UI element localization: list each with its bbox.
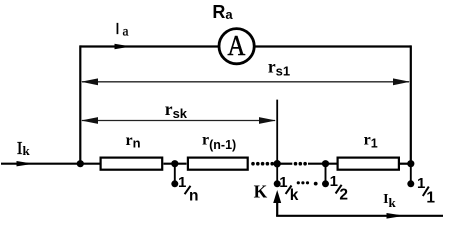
dotted wire segment after Rn-1 <box>251 162 274 166</box>
resistor R1 <box>338 158 399 170</box>
junction node 1/n <box>171 160 178 167</box>
label 1/1 <box>417 175 435 206</box>
wire stub into node K <box>274 163 278 165</box>
svg-text:1: 1 <box>178 174 186 191</box>
wire top horizontal right of ammeter <box>254 45 411 47</box>
junction node 1/1 <box>407 160 414 167</box>
label 1/k <box>279 174 298 204</box>
wire from R1 to right branch <box>400 163 411 165</box>
junction node K <box>274 160 281 167</box>
wire drop to terminal 1/n <box>174 164 176 184</box>
wire bottom output horizontal <box>276 215 443 217</box>
dotted wire segment before 1/2 node <box>294 162 307 166</box>
wire node K vertical upper <box>276 100 278 184</box>
wire solid right of node K <box>277 163 292 165</box>
wire input left horizontal <box>1 163 100 165</box>
svg-text:2: 2 <box>339 186 348 203</box>
terminal dot 1/2 <box>322 180 329 187</box>
wire right vertical branch <box>410 45 412 163</box>
svg-text:a: a <box>123 23 129 38</box>
terminal dot 1/n <box>171 180 178 187</box>
svg-text:1: 1 <box>426 189 435 206</box>
svg-text:I: I <box>115 21 119 38</box>
terminal dot 1/k <box>274 180 281 187</box>
current arrow Ia on top wire <box>115 44 132 49</box>
label 1/2 <box>330 173 348 203</box>
dimension line rs1 <box>82 81 409 83</box>
dimension arrowhead rsk left <box>81 117 98 124</box>
svg-text:rsk: rsk <box>165 99 188 121</box>
wire drop to terminal 1/2 <box>325 164 327 184</box>
wire between Rn and Rn-1 <box>164 163 187 165</box>
dimension arrowhead rsk right <box>259 117 276 124</box>
wire left vertical branch <box>79 45 81 163</box>
arrow up at node K <box>273 190 281 203</box>
wire top horizontal left of ammeter <box>80 45 219 47</box>
svg-text:rn: rn <box>126 132 141 151</box>
resistor Rn-1 <box>188 158 248 170</box>
terminal dot 1/1 <box>407 180 414 187</box>
label 1/n <box>178 174 198 205</box>
resistor Rn <box>101 158 163 170</box>
svg-text:Ra: Ra <box>212 2 233 22</box>
ammeter U1 circle <box>219 29 254 64</box>
svg-text:A: A <box>228 30 246 61</box>
wire solid into 1/2 node <box>308 163 337 165</box>
svg-text:Ik: Ik <box>383 192 396 210</box>
svg-text:r(n-1): r(n-1) <box>202 132 236 152</box>
dimension arrowhead rs1 right <box>393 78 410 85</box>
current arrow Ik output <box>387 213 405 219</box>
junction node left branch <box>77 160 84 167</box>
wire drop to terminal 1/1 <box>410 164 412 184</box>
svg-text:1: 1 <box>417 175 425 192</box>
svg-text:K: K <box>254 182 268 202</box>
dimension line rsk <box>82 120 275 122</box>
svg-text:rs1: rs1 <box>268 57 290 79</box>
svg-text:k: k <box>290 187 299 204</box>
wire vertical below K arrow <box>276 201 278 216</box>
decorative dots between 1/k and 1/2 <box>297 181 318 185</box>
dimension arrowhead rs1 left <box>81 78 98 85</box>
svg-text:1: 1 <box>330 173 338 190</box>
svg-text:1: 1 <box>279 174 287 191</box>
junction node 1/2 <box>322 160 329 167</box>
svg-text:r1: r1 <box>364 131 378 150</box>
svg-text:n: n <box>189 188 198 205</box>
current arrow Ik input <box>17 161 34 166</box>
svg-text:Ik: Ik <box>17 138 31 158</box>
